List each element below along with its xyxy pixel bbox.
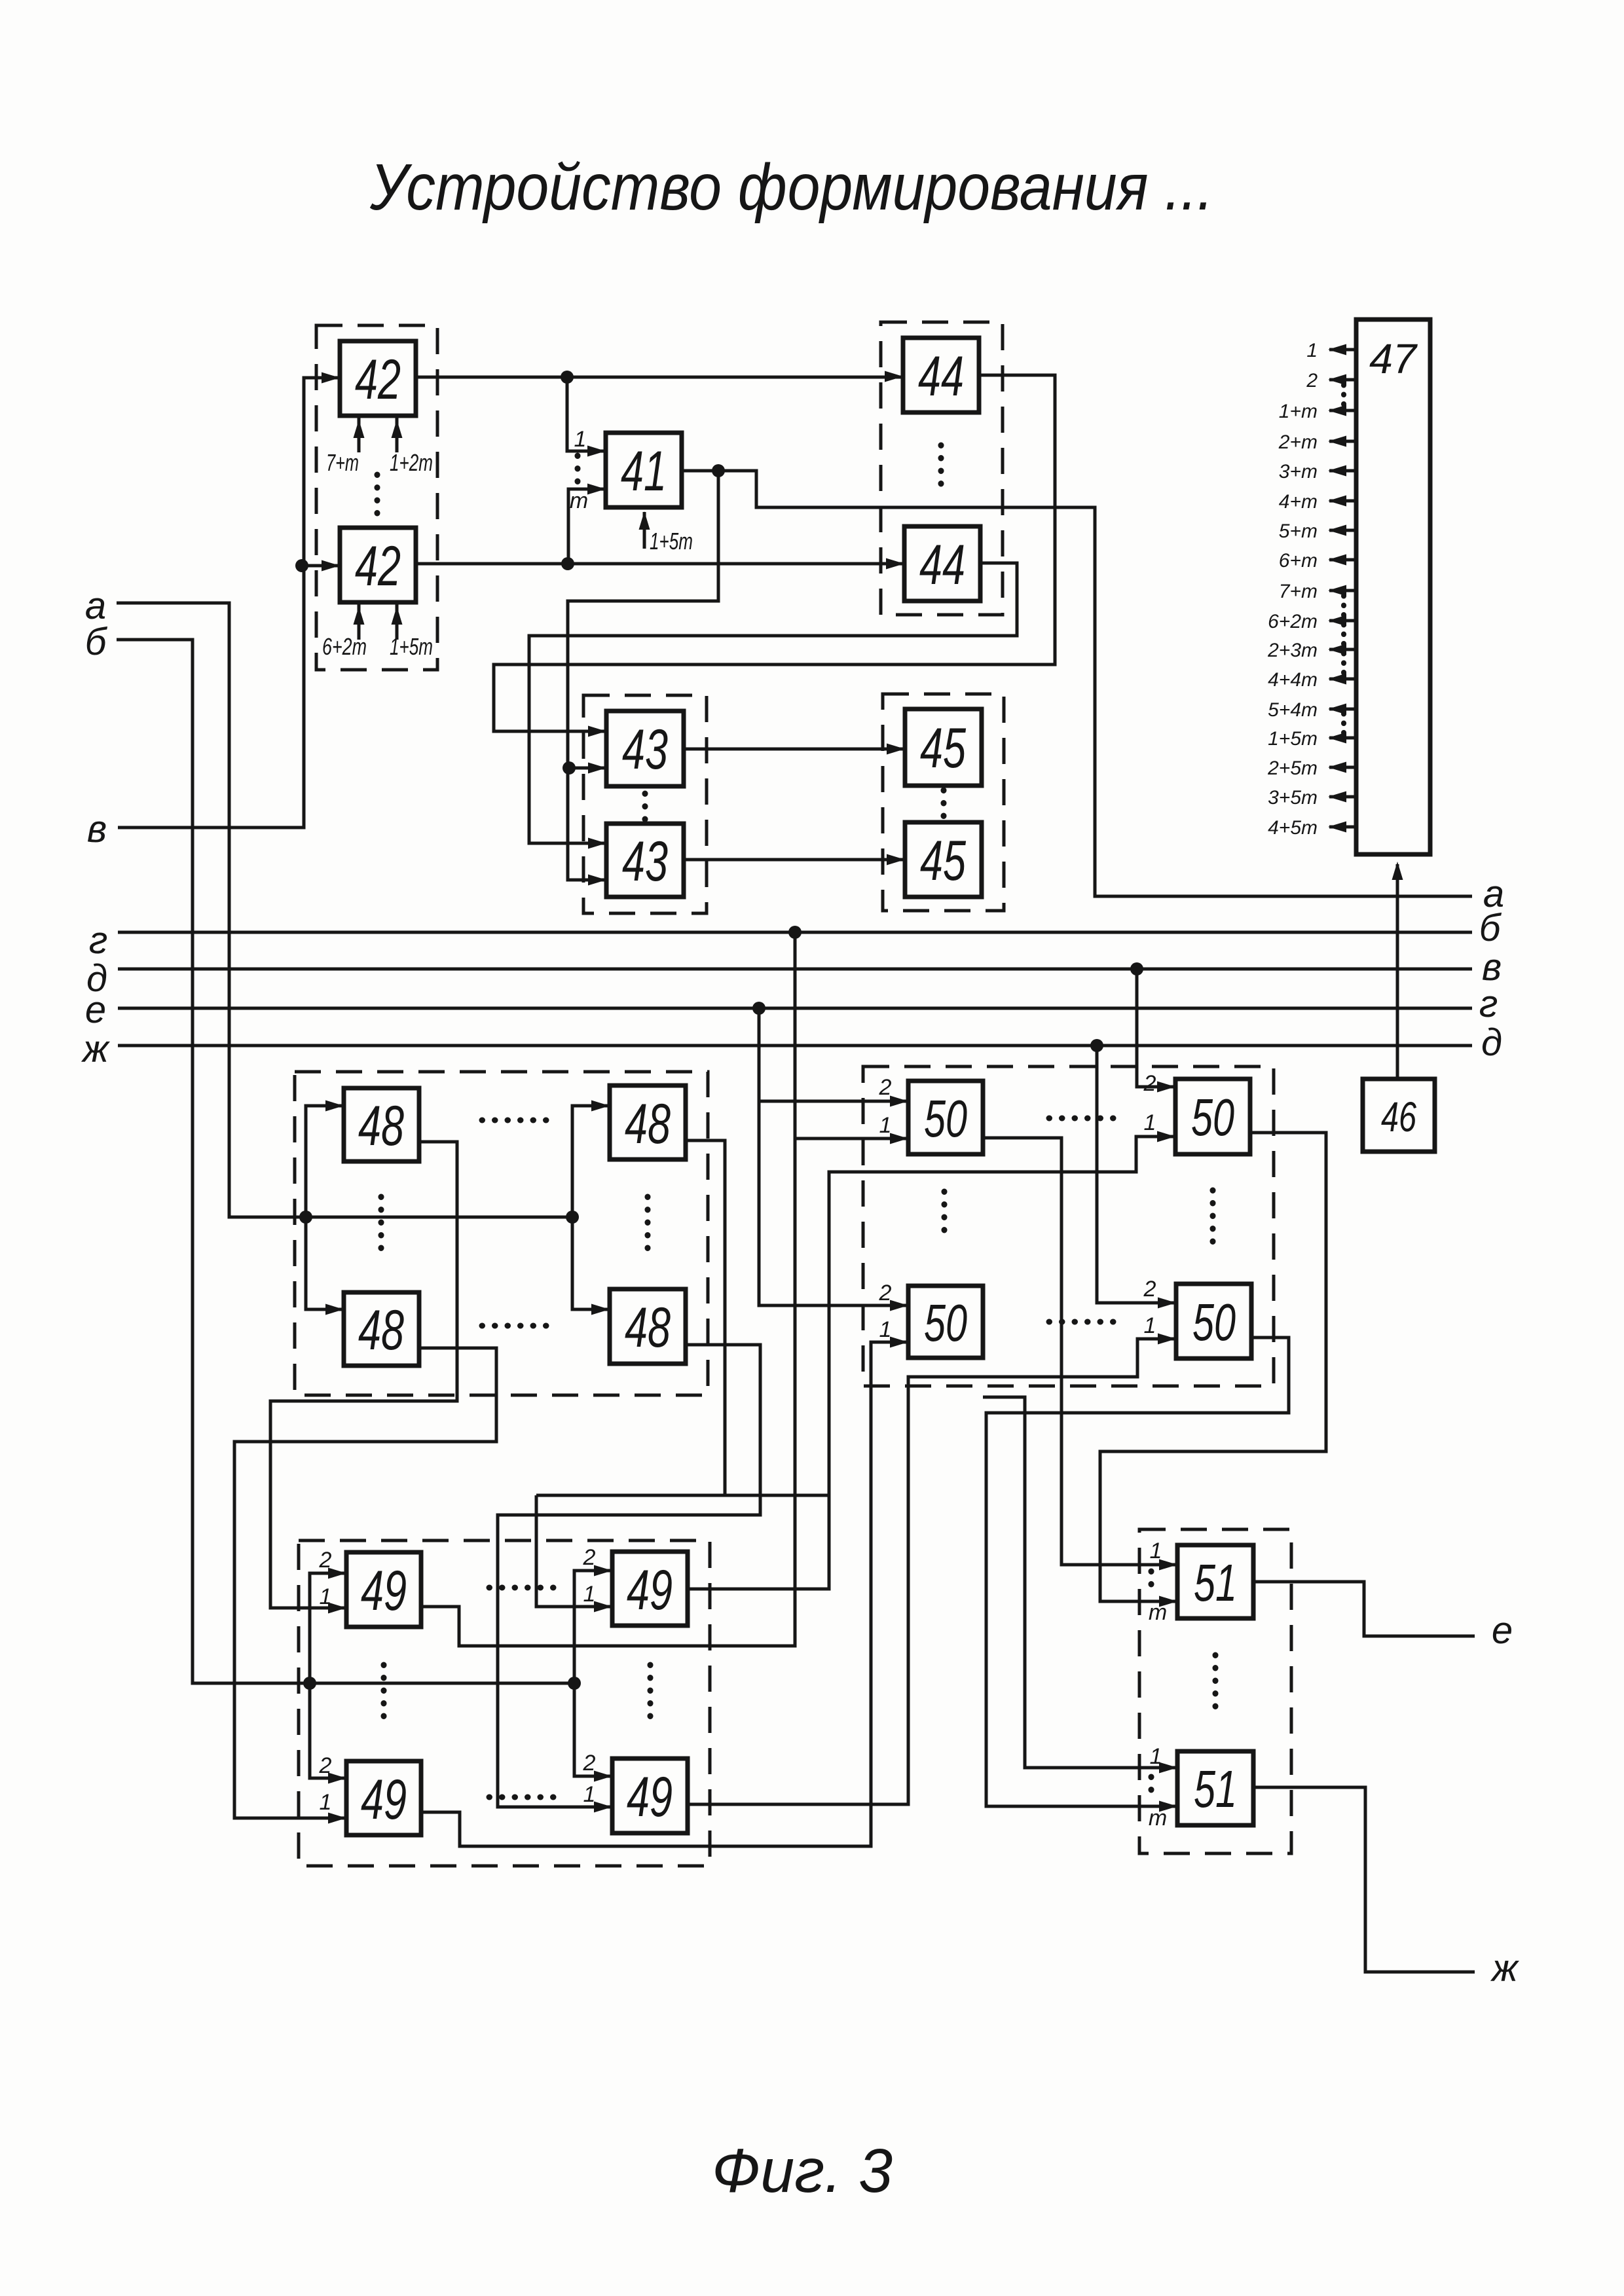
svg-text:4+m: 4+m bbox=[1279, 491, 1318, 513]
svg-text:6+m: 6+m bbox=[1279, 550, 1318, 572]
svg-text:48: 48 bbox=[358, 1095, 404, 1157]
svg-text:2: 2 bbox=[879, 1281, 892, 1305]
svg-text:7+m: 7+m bbox=[1279, 581, 1318, 602]
svg-text:1: 1 bbox=[320, 1790, 332, 1815]
svg-text:2+3m: 2+3m bbox=[1267, 640, 1318, 661]
svg-text:50: 50 bbox=[924, 1294, 967, 1352]
svg-text:2+m: 2+m bbox=[1278, 431, 1318, 453]
svg-text:2: 2 bbox=[1306, 370, 1318, 392]
svg-text:43: 43 bbox=[622, 718, 668, 781]
svg-text:1+5m: 1+5m bbox=[390, 633, 433, 660]
svg-text:2: 2 bbox=[319, 1753, 332, 1778]
svg-text:в: в bbox=[87, 808, 107, 850]
svg-text:49: 49 bbox=[627, 1766, 673, 1829]
svg-text:43: 43 bbox=[622, 830, 668, 893]
svg-text:48: 48 bbox=[358, 1299, 404, 1362]
svg-text:m: m bbox=[570, 488, 588, 513]
svg-text:1: 1 bbox=[1150, 1744, 1162, 1769]
svg-text:1: 1 bbox=[1150, 1539, 1162, 1563]
svg-text:3+5m: 3+5m bbox=[1268, 787, 1318, 809]
svg-text:7+m: 7+m bbox=[326, 449, 359, 476]
svg-text:2: 2 bbox=[583, 1751, 596, 1776]
svg-text:49: 49 bbox=[361, 1768, 407, 1831]
svg-text:49: 49 bbox=[361, 1559, 407, 1622]
svg-text:45: 45 bbox=[920, 829, 967, 892]
svg-text:1+5m: 1+5m bbox=[650, 528, 693, 555]
svg-text:4+4m: 4+4m bbox=[1268, 669, 1318, 691]
svg-text:1: 1 bbox=[879, 1317, 892, 1342]
svg-text:е: е bbox=[1492, 1609, 1513, 1652]
svg-text:44: 44 bbox=[919, 534, 965, 596]
svg-text:42: 42 bbox=[355, 348, 401, 411]
svg-text:2: 2 bbox=[879, 1075, 892, 1100]
svg-text:Устройство формирования ...: Устройство формирования ... bbox=[369, 151, 1213, 224]
svg-text:1: 1 bbox=[1306, 340, 1318, 361]
svg-text:2+5m: 2+5m bbox=[1267, 757, 1318, 779]
svg-text:Фиг. 3: Фиг. 3 bbox=[712, 2136, 893, 2206]
svg-text:1: 1 bbox=[1144, 1110, 1156, 1135]
svg-text:г: г bbox=[89, 919, 108, 962]
svg-text:6+2m: 6+2m bbox=[1268, 611, 1318, 632]
svg-text:ж: ж bbox=[1490, 1947, 1519, 1990]
svg-text:г: г bbox=[1479, 983, 1498, 1025]
svg-text:50: 50 bbox=[1192, 1293, 1236, 1351]
svg-text:б: б bbox=[1479, 907, 1502, 949]
svg-text:2: 2 bbox=[583, 1545, 596, 1570]
svg-text:д: д bbox=[1481, 1021, 1502, 1064]
svg-text:5+4m: 5+4m bbox=[1268, 699, 1318, 721]
svg-text:48: 48 bbox=[625, 1296, 671, 1359]
svg-text:m: m bbox=[1149, 1600, 1167, 1625]
svg-text:2: 2 bbox=[319, 1548, 332, 1573]
svg-text:1: 1 bbox=[879, 1113, 892, 1138]
svg-text:48: 48 bbox=[625, 1093, 671, 1156]
svg-text:1+5m: 1+5m bbox=[1268, 728, 1318, 750]
svg-text:m: m bbox=[1149, 1806, 1167, 1831]
svg-text:5+m: 5+m bbox=[1279, 520, 1318, 542]
svg-text:46: 46 bbox=[1381, 1093, 1416, 1140]
svg-text:50: 50 bbox=[1191, 1088, 1234, 1146]
svg-text:2: 2 bbox=[1143, 1071, 1156, 1096]
svg-text:е: е bbox=[85, 989, 106, 1031]
svg-text:1: 1 bbox=[1144, 1313, 1156, 1338]
svg-text:1: 1 bbox=[320, 1584, 332, 1609]
svg-text:45: 45 bbox=[920, 717, 967, 780]
svg-text:1: 1 bbox=[583, 1582, 596, 1607]
svg-text:4+5m: 4+5m bbox=[1268, 817, 1318, 839]
svg-text:1: 1 bbox=[574, 427, 587, 452]
svg-text:44: 44 bbox=[918, 345, 964, 408]
svg-text:47: 47 bbox=[1369, 335, 1418, 382]
svg-text:41: 41 bbox=[621, 440, 667, 503]
svg-text:42: 42 bbox=[355, 535, 401, 598]
svg-text:51: 51 bbox=[1194, 1554, 1237, 1612]
svg-text:3+m: 3+m bbox=[1279, 461, 1318, 483]
svg-text:49: 49 bbox=[627, 1559, 673, 1622]
svg-text:ж: ж bbox=[81, 1028, 110, 1070]
svg-text:1+2m: 1+2m bbox=[390, 449, 433, 476]
svg-text:1+m: 1+m bbox=[1279, 401, 1318, 422]
svg-text:2: 2 bbox=[1143, 1277, 1156, 1302]
svg-text:1: 1 bbox=[583, 1782, 596, 1807]
svg-text:б: б bbox=[85, 621, 108, 663]
svg-text:6+2m: 6+2m bbox=[322, 633, 367, 660]
svg-text:51: 51 bbox=[1194, 1760, 1237, 1818]
svg-text:50: 50 bbox=[924, 1089, 967, 1148]
